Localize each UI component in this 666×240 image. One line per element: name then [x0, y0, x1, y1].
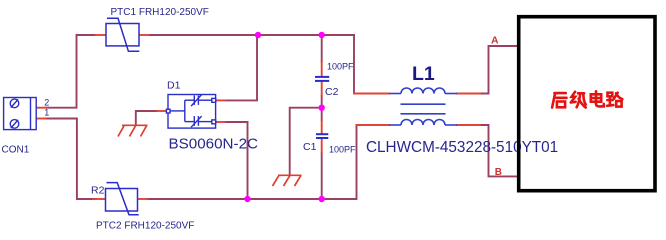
svg-text:CLHWCM-453228-510YT01: CLHWCM-453228-510YT01 [366, 139, 558, 156]
svg-text:PTC1 FRH120-250VF: PTC1 FRH120-250VF [111, 7, 209, 18]
svg-text:2: 2 [44, 97, 49, 107]
svg-text:C2: C2 [325, 86, 339, 98]
svg-text:D1: D1 [167, 80, 181, 92]
svg-text:CON1: CON1 [2, 145, 30, 156]
svg-text:R2: R2 [91, 185, 105, 197]
svg-text:PTC2 FRH120-250VF: PTC2 FRH120-250VF [96, 221, 194, 232]
svg-text:L1: L1 [412, 63, 435, 85]
svg-text:1: 1 [44, 108, 49, 118]
svg-text:100PF: 100PF [329, 145, 356, 155]
svg-text:BS0060N-2C: BS0060N-2C [169, 136, 259, 153]
svg-text:A: A [491, 34, 499, 46]
svg-text:B: B [495, 167, 502, 178]
svg-text:C1: C1 [303, 141, 317, 153]
svg-text:100PF: 100PF [327, 62, 354, 72]
